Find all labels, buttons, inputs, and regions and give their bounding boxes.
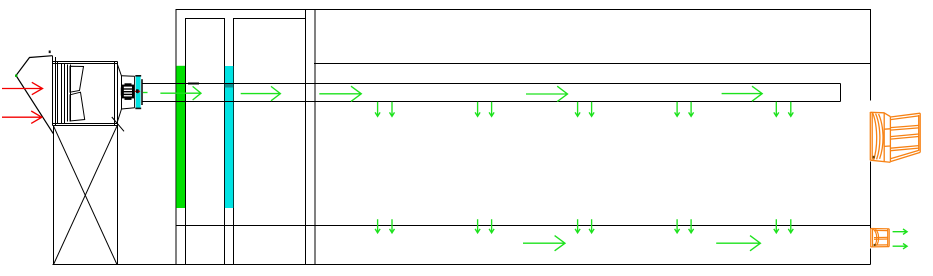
fan outlet cone throat xyxy=(121,76,123,109)
duct flow arrow 4 xyxy=(526,86,568,101)
upper outlet arrows pair 5 xyxy=(774,102,779,117)
lower return arrows pair 4 xyxy=(675,219,680,233)
wire right wall lower segment xyxy=(870,249,872,265)
wire chamber ceiling line xyxy=(314,63,871,65)
node filter frame 1 top xyxy=(185,18,225,20)
stand cross brace 1 xyxy=(54,126,118,265)
fan box bottom double line xyxy=(53,123,118,125)
stand short strut under cone xyxy=(112,117,124,131)
exit flow arrow lower xyxy=(893,244,908,249)
lower flow arrow 1 xyxy=(523,236,565,251)
red inflow arrow upper xyxy=(2,82,43,94)
fan box right wall double line xyxy=(114,62,116,126)
duct inlet flange xyxy=(141,79,143,105)
flexible connector cyan fill xyxy=(136,77,141,109)
fan impeller shaft double line xyxy=(67,65,69,122)
duct top wall xyxy=(142,83,841,85)
duct flow arrow 3 xyxy=(319,86,361,101)
lower return arrows pair 2 xyxy=(475,219,480,233)
wire lower plenum line xyxy=(176,225,871,227)
fan outlet collar top xyxy=(122,75,135,78)
flexible connector bottom cap xyxy=(135,107,141,109)
fan inner partition double line xyxy=(61,64,63,124)
wire partition wall left line xyxy=(305,9,307,265)
lower return arrows pair 1 xyxy=(375,219,380,233)
stand right leg xyxy=(117,119,119,265)
fan outlet cone bottom xyxy=(117,109,122,123)
node filter frame 2 top xyxy=(234,18,306,20)
exhaust louver small xyxy=(871,228,890,247)
wire outer top wall xyxy=(176,9,871,11)
upper outlet arrows pair 4 xyxy=(675,102,680,117)
node small louver dark dot xyxy=(874,244,876,246)
lower return arrows pair 3 xyxy=(575,219,580,233)
node hub shaft dark dot xyxy=(136,89,139,93)
stand cross brace 2 xyxy=(54,126,118,265)
fan outlet collar line xyxy=(134,76,136,107)
fan box top double line xyxy=(53,61,118,63)
node louver dark pivot dot xyxy=(873,156,875,159)
duct right end cap xyxy=(840,84,842,102)
lower flow arrow 2 xyxy=(716,236,760,251)
upper outlet arrows pair 3 xyxy=(575,102,580,117)
wire bottom floor line xyxy=(53,264,871,266)
exhaust louver large xyxy=(870,112,920,162)
fan impeller upper blade xyxy=(70,66,84,92)
lower return arrows pair 5 xyxy=(774,219,779,233)
fine filter cyan stripe xyxy=(225,66,233,208)
flexible connector top cap xyxy=(135,75,141,77)
fan outlet collar bottom xyxy=(122,108,135,109)
duct flow arrow 1 xyxy=(160,86,201,100)
node filter frame 2 left wall xyxy=(233,18,235,265)
green flow dash at fan outlet xyxy=(143,92,148,94)
node small mark above box xyxy=(49,51,51,54)
fan hub red arrow xyxy=(135,90,140,93)
fan box left wall double line xyxy=(52,56,54,126)
red inflow arrow lower xyxy=(2,111,42,123)
duct bottom wall xyxy=(142,101,841,103)
fan impeller lower blade xyxy=(70,92,85,121)
fan outlet cone top xyxy=(117,63,122,76)
duct flow arrow 5 xyxy=(722,86,763,101)
wire right wall upper segment xyxy=(870,9,872,101)
wire outer left wall xyxy=(175,9,177,265)
fan motor hub assembly xyxy=(121,84,133,100)
wire right wall mid segment xyxy=(870,162,872,229)
upper outlet arrows pair 1 xyxy=(375,102,380,117)
damper dark cell over cyan stripe xyxy=(225,83,234,88)
duct flow arrow 2 xyxy=(241,86,281,100)
stand left leg xyxy=(53,126,55,265)
inlet hood xyxy=(16,56,53,134)
coarse filter green stripe xyxy=(176,66,185,208)
node hood apex green dot xyxy=(15,75,17,77)
wire partition wall right line xyxy=(314,9,316,265)
damper black dash on duct top xyxy=(188,83,199,85)
node filter frame 1 left wall xyxy=(185,18,187,265)
node filter frame 1 right wall xyxy=(224,18,226,265)
upper outlet arrows pair 2 xyxy=(475,102,480,117)
exit flow arrow upper xyxy=(893,229,908,234)
